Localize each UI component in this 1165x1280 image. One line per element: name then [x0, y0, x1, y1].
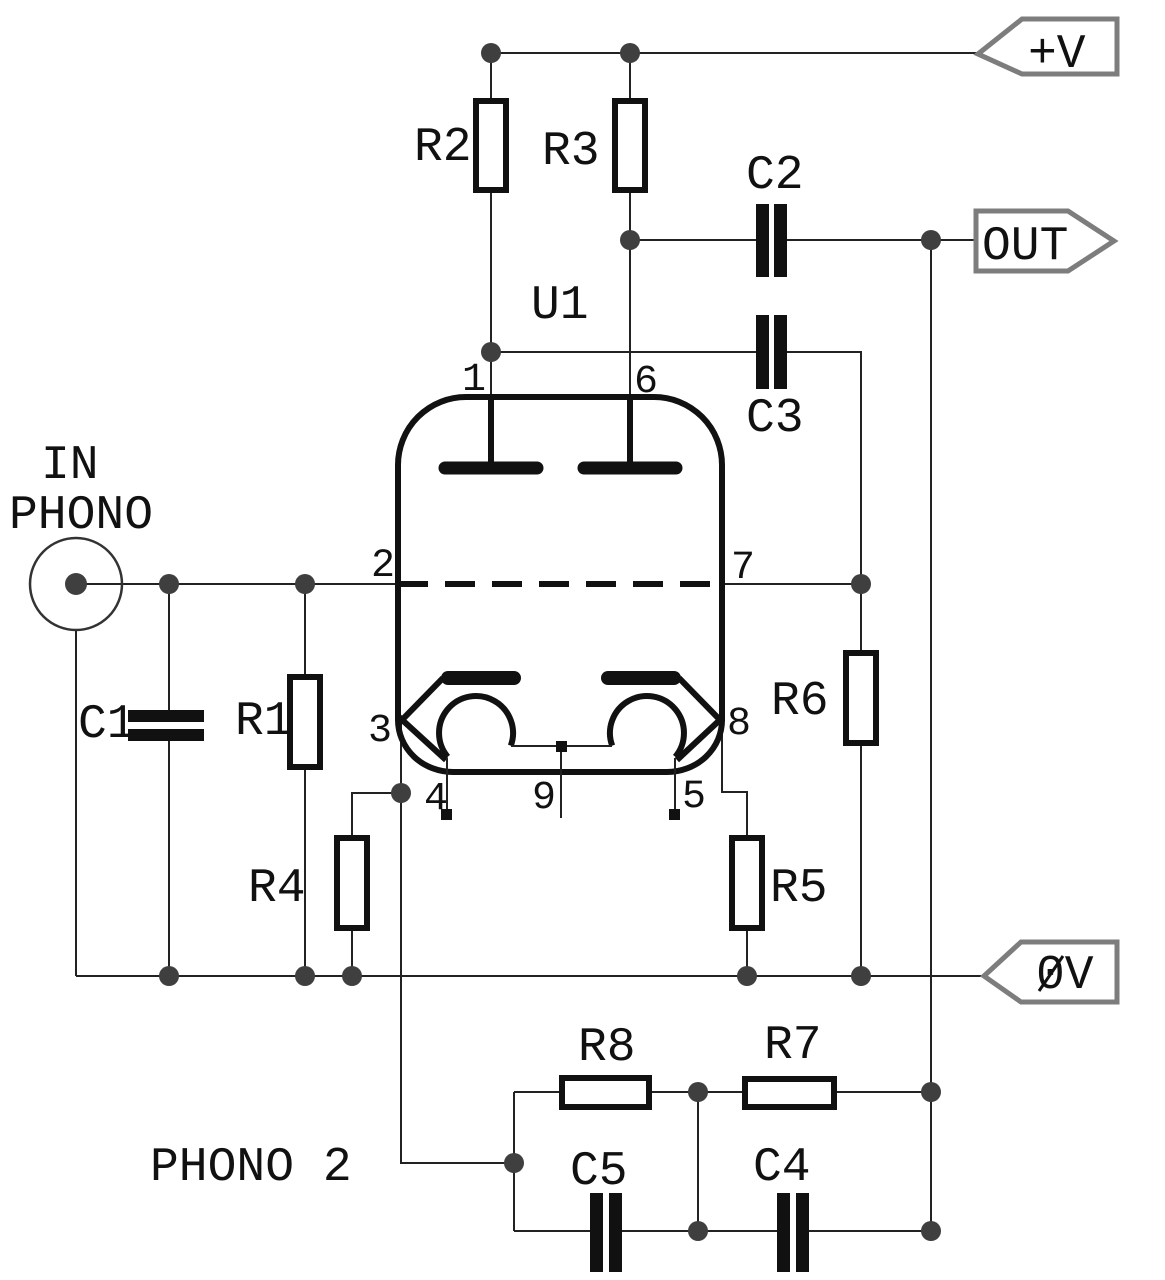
- wire pin 5 lead: [674, 758, 676, 810]
- wire C2 to OUT: [787, 239, 976, 241]
- junction input R1: [295, 574, 315, 594]
- wire C3 right: [787, 352, 861, 584]
- tube U1 cathode slant left lower: [399, 717, 446, 760]
- tube U1 anode plate left: [445, 462, 537, 475]
- svg-text:PHONO 2: PHONO 2: [150, 1141, 352, 1195]
- wire IN drop to 0V: [75, 629, 77, 976]
- wire R3 bottom to pin 6: [629, 193, 631, 400]
- tube U1 grid dashed line: [398, 581, 722, 587]
- capacitor C2: [756, 204, 787, 277]
- svg-text:R1: R1: [235, 695, 293, 749]
- wire heater center: [511, 745, 612, 747]
- junction input C1: [159, 574, 179, 594]
- wire R6 bottom lead: [860, 746, 862, 976]
- junction 0V R5: [737, 966, 757, 986]
- tube U1 anode plate right: [584, 462, 676, 475]
- wire R4 bottom lead: [351, 931, 353, 976]
- svg-text:C5: C5: [570, 1145, 628, 1199]
- junction top rail right: [620, 43, 640, 63]
- resistor R6: [846, 653, 876, 743]
- svg-text:C3: C3: [746, 392, 804, 446]
- port OUT: [976, 211, 1114, 271]
- capacitor C3: [756, 315, 787, 389]
- tube U1 anode lead pin 1: [488, 397, 494, 464]
- resistor R7: [745, 1079, 834, 1107]
- capacitor C1: [128, 710, 204, 741]
- junction top rail left: [481, 43, 501, 63]
- junction R8 R7 node: [688, 1082, 708, 1102]
- wire R3 top lead: [629, 53, 631, 98]
- wire input row: [76, 583, 398, 585]
- wire R8 left lead: [514, 1091, 559, 1093]
- svg-text:0V: 0V: [1036, 949, 1094, 1003]
- svg-text:C2: C2: [746, 149, 804, 203]
- svg-text:R4: R4: [248, 862, 306, 916]
- capacitor C4: [777, 1193, 809, 1272]
- tube U1 cathode slant right lower: [677, 717, 723, 760]
- junction 0V R1: [295, 966, 315, 986]
- svg-text:1: 1: [462, 358, 486, 403]
- wire node to R4: [352, 793, 401, 835]
- wire 0V rail: [76, 975, 984, 977]
- junction pin1 C3 node: [481, 342, 501, 362]
- wire bottom rail mid: [622, 1230, 777, 1232]
- wire pin 8 to R5: [722, 721, 747, 835]
- svg-text:U1: U1: [531, 279, 589, 333]
- tube U1 anode lead pin 6: [627, 397, 633, 464]
- wire pin 1 to C3: [491, 351, 756, 353]
- resistor R2: [476, 101, 506, 190]
- svg-text:C4: C4: [753, 1141, 811, 1195]
- tube U1 cathode slant right upper: [679, 678, 723, 723]
- svg-text:2: 2: [371, 544, 395, 589]
- wire cathode node to bottom network: [401, 793, 514, 1163]
- svg-text:4: 4: [424, 777, 448, 822]
- wire bottom rail right: [809, 1230, 931, 1232]
- tube U1 heater arc left: [439, 696, 513, 757]
- svg-text:7: 7: [731, 546, 755, 591]
- wire pin 7 to R6 node: [722, 583, 861, 585]
- wire +V rail: [491, 52, 978, 54]
- resistor R4: [337, 838, 367, 928]
- svg-text:R5: R5: [770, 862, 828, 916]
- junction pin7 R6: [851, 574, 871, 594]
- svg-text:R2: R2: [414, 121, 472, 175]
- wire R7 right lead: [837, 1091, 931, 1093]
- junction OUT node: [921, 230, 941, 250]
- tube U1 cathode slant left upper: [399, 678, 443, 723]
- tube U1 envelope: [398, 397, 722, 772]
- junction C5 C4 node: [688, 1221, 708, 1241]
- wire R8 to R7: [652, 1091, 742, 1093]
- wire pin 3 down: [400, 720, 402, 793]
- resistor R5: [732, 838, 762, 928]
- svg-text:9: 9: [532, 776, 556, 821]
- tube U1 heater arc right: [610, 696, 684, 757]
- junction 0V R6: [851, 966, 871, 986]
- wire left node of R8 C5: [513, 1092, 515, 1231]
- svg-text:5: 5: [682, 775, 706, 820]
- svg-text:6: 6: [634, 360, 658, 405]
- svg-text:3: 3: [368, 709, 392, 754]
- terminal pin 5: [669, 809, 680, 820]
- junction feedback left node: [504, 1153, 524, 1173]
- capacitor C5: [590, 1193, 622, 1272]
- terminal pin 4: [441, 809, 452, 820]
- svg-text:OUT: OUT: [982, 220, 1068, 274]
- svg-text:8: 8: [727, 702, 751, 747]
- resistor R8: [562, 1078, 649, 1107]
- svg-text:R6: R6: [771, 675, 829, 729]
- junction cathode R4: [391, 783, 411, 803]
- svg-text:PHONO: PHONO: [9, 489, 153, 543]
- wire R2 bottom to pin 1: [490, 193, 492, 400]
- tube U1 cathode bar left: [448, 671, 514, 685]
- svg-text:+V: +V: [1028, 28, 1086, 82]
- junction R7 OUT node: [921, 1082, 941, 1102]
- node pin 9 center tap: [556, 741, 567, 752]
- svg-text:C1: C1: [78, 698, 136, 752]
- wire anode node to C2: [630, 239, 756, 241]
- tube U1 cathode bar right: [608, 671, 674, 685]
- junction 0V R4: [342, 966, 362, 986]
- wire R1 top lead: [304, 584, 306, 674]
- junction C4 OUT node: [921, 1221, 941, 1241]
- wire OUT vertical feedback: [930, 240, 932, 1231]
- wire mid node vertical: [697, 1092, 699, 1231]
- wire R5 bottom lead: [746, 931, 748, 976]
- resistor R1: [290, 677, 320, 767]
- slash of zero: [1039, 956, 1063, 991]
- port 0V: [984, 942, 1117, 1002]
- resistor R3: [615, 101, 645, 190]
- junction 0V C1: [159, 966, 179, 986]
- svg-text:IN: IN: [41, 439, 99, 493]
- svg-text:R3: R3: [542, 125, 600, 179]
- connector IN PHONO: [30, 538, 122, 630]
- wire pin 4 lead: [446, 758, 448, 810]
- svg-text:R7: R7: [764, 1019, 822, 1073]
- wire R1 bottom lead: [304, 770, 306, 976]
- wire R2 top lead: [490, 53, 492, 98]
- wire C1 bottom lead: [168, 741, 170, 976]
- wire R6 top lead: [860, 584, 862, 650]
- junction anode C2 node: [620, 230, 640, 250]
- svg-text:R8: R8: [578, 1021, 636, 1075]
- wire pin 9 lead: [560, 752, 562, 818]
- wire C1 top lead: [168, 584, 170, 710]
- wire bottom rail left: [514, 1230, 590, 1232]
- port +V: [978, 19, 1117, 74]
